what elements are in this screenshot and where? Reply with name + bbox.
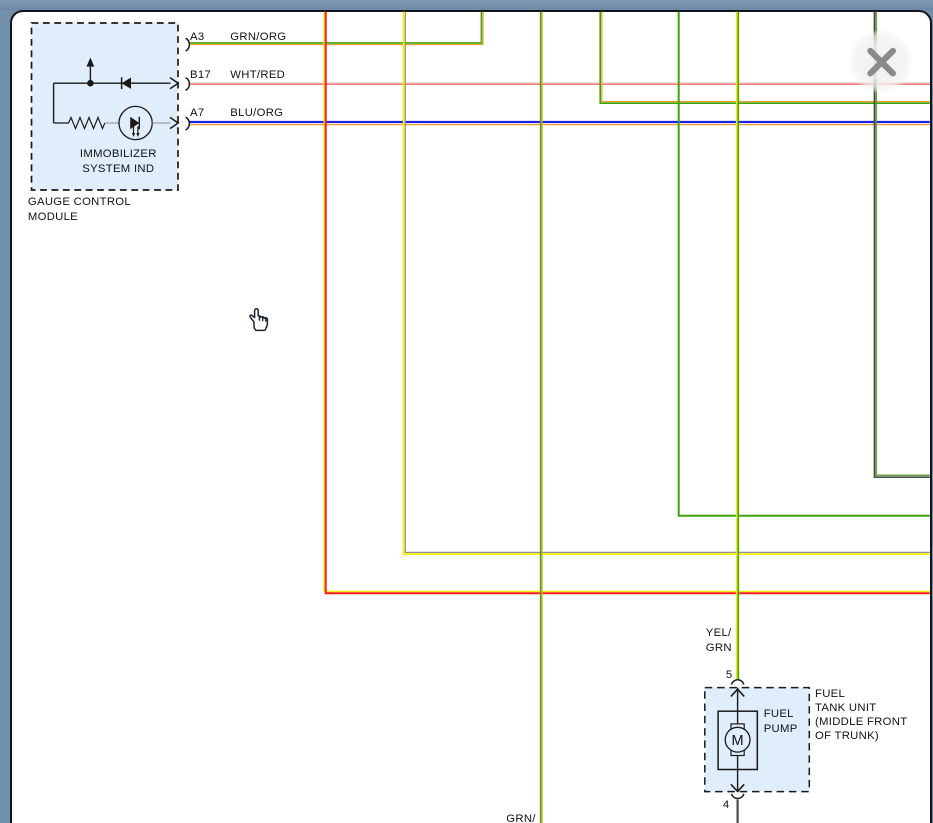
LED indicator lamp	[119, 106, 152, 139]
diode D1	[122, 77, 131, 89]
gauge control module box	[32, 23, 179, 190]
window title bar	[0, 0, 933, 10]
label FUEL TANK UNIT	[815, 687, 907, 744]
arrow into B17 connector	[170, 78, 178, 89]
label B17	[190, 68, 211, 82]
label FUEL PUMP	[764, 707, 798, 735]
label IMMOBILIZER SYSTEM IND	[60, 147, 177, 175]
wire GRN vertical x678 turning right at y515	[679, 12, 930, 516]
arrow up from junction	[87, 58, 95, 84]
wire GRN/ORG vertical x541 full height	[541, 12, 543, 823]
label GRN/	[506, 812, 535, 823]
junction dot	[87, 80, 94, 87]
label A3	[190, 30, 204, 44]
resistor R	[54, 118, 120, 129]
label BLU/ORG	[230, 106, 283, 120]
fuel pump body	[718, 711, 757, 769]
wire YEL/WHT vertical x404 turning right at y553	[404, 12, 930, 554]
label pin 4	[719, 798, 730, 812]
label YEL/GRN	[706, 626, 732, 654]
wire BLK below fuel pump	[736, 800, 738, 823]
wire A7 BLU/ORG horizontal	[189, 122, 930, 125]
label GAUGE CONTROL MODULE	[28, 195, 131, 223]
fuel tank unit box	[705, 688, 810, 792]
fuel pump return wire with down arrow	[731, 756, 744, 792]
fuel pump feed wire with up arrow	[731, 688, 744, 724]
svg-text:M: M	[732, 733, 744, 749]
connector arc pin 4 fuel pump	[731, 794, 744, 799]
wire RED/YEL vertical x325 turning right at y592	[324, 12, 930, 594]
connector arc B17	[186, 78, 190, 91]
wire BLK/GRN vertical x875 turning right at y474	[874, 12, 930, 478]
close button	[849, 30, 913, 94]
wire LED to A7 connector	[152, 117, 178, 128]
wire YEL/GRN vertical x737 to fuel pump	[737, 12, 739, 681]
connector arc pin 5 fuel pump	[731, 680, 744, 685]
label GRN/ORG	[230, 30, 286, 44]
mouse cursor hand pointer	[250, 309, 267, 331]
wire B17 WHT/RED horizontal	[189, 83, 930, 85]
wire GRN/ORG vertical x600 turning right at y103	[600, 12, 930, 104]
connector arc A3	[186, 38, 190, 51]
immobilizer wire to B17 with junction	[54, 83, 171, 123]
motor M symbol	[725, 724, 750, 756]
label pin 5	[722, 668, 733, 682]
label A7	[190, 106, 204, 120]
connector arc A7	[186, 117, 190, 130]
label WHT/RED	[230, 68, 285, 82]
wire A3 GRN/ORG horizontal+up	[189, 12, 483, 45]
